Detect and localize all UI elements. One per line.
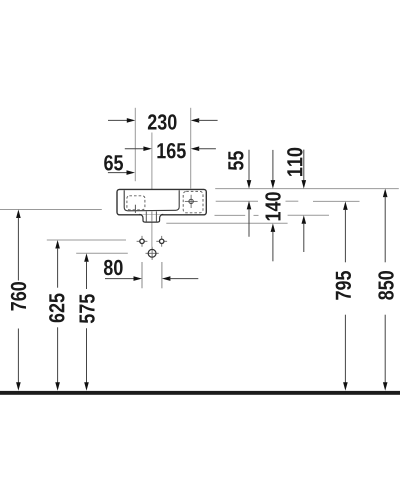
dimension label 850: [378, 271, 393, 300]
dimension 65 arrow: [108, 170, 135, 175]
drain centerline: [151, 133, 153, 247]
dimension 80 extension line right: [161, 262, 163, 288]
drain pipe circle: [146, 247, 159, 260]
dimension 625 arrows: [55, 240, 60, 391]
dimension label 625: [49, 294, 64, 323]
dimension label 110: [287, 148, 302, 176]
basin bottom extension line (right, segmented): [215, 214, 330, 216]
drain trap below basin: [139, 214, 163, 222]
dimension label 80: [104, 260, 123, 275]
drain centerline inside trap: [151, 211, 153, 222]
dimension 80 arrows: [105, 276, 198, 281]
dimension 80 extension line left: [141, 262, 143, 288]
hidden overflow box (dashed, left): [127, 196, 145, 210]
dimension label 165: [157, 143, 185, 158]
dimension 55 arrows: [247, 150, 252, 237]
washbasin outer body (front view): [117, 189, 206, 214]
dimension 795 arrows: [343, 201, 348, 390]
fixing hole right: [156, 236, 167, 247]
left reference line at bowl bottom (760): [0, 209, 102, 211]
trap inner wall left: [145, 211, 147, 222]
dimension 140 arrows: [271, 150, 276, 261]
dimension label 65: [104, 155, 123, 170]
fixing hole left: [137, 236, 148, 247]
tap hole cross: [185, 195, 198, 208]
dimension label 575: [80, 294, 95, 323]
dimension label 795: [336, 271, 351, 300]
dimension 760 arrows: [16, 210, 21, 391]
marker line inside bowl at 65 reference: [134, 205, 136, 213]
trap bottom extension line: [166, 222, 287, 224]
dimension label 140: [265, 192, 280, 220]
dimension 850 arrows: [383, 189, 388, 391]
tap hole center extension line (right, segmented): [216, 200, 360, 202]
trap inner wall right: [155, 211, 157, 222]
left reference line at fixing holes (625): [47, 239, 126, 241]
left reference line at drain (575): [76, 252, 128, 254]
dimension label 760: [11, 282, 26, 311]
dimension 575 arrows: [84, 253, 89, 390]
tap deck hidden edge (dashed, right): [183, 191, 203, 212]
extension line left for 230/65: [134, 108, 136, 181]
floor line: [0, 391, 400, 395]
dimension 230 arrows: [108, 118, 218, 123]
dimension 165 arrows: [125, 146, 216, 151]
dimension label 230: [148, 114, 177, 129]
rim top extension line (right): [215, 188, 399, 190]
dimension label 55: [228, 151, 243, 170]
dimension 110 arrows: [302, 150, 307, 252]
basin inner bowl outline: [124, 190, 179, 211]
extension line tap centerline (top): [190, 108, 192, 189]
